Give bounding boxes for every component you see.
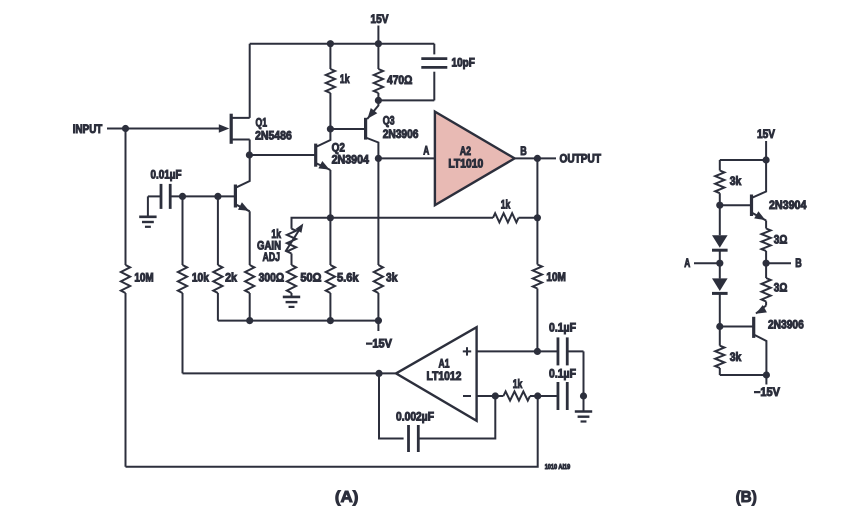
node A junction (B) <box>716 260 723 267</box>
svg-text:50Ω: 50Ω <box>300 271 321 284</box>
wire A2 output <box>515 157 556 159</box>
svg-text:B: B <box>795 257 802 270</box>
transistor 2N3904 (B) emitter <box>752 213 767 221</box>
node A junction <box>375 155 382 162</box>
ground symbol (50ohm) <box>283 296 300 299</box>
wire A1 output row <box>183 372 397 374</box>
power -15V supply stub <box>377 321 379 331</box>
resistor 2k <box>217 196 219 265</box>
label minus input <box>463 395 471 397</box>
resistor 300ohm <box>249 211 251 265</box>
node output / 1k feedback junction <box>534 214 541 221</box>
wire diode column upper (B) <box>719 205 721 235</box>
svg-text:1k: 1k <box>340 73 350 86</box>
node 1k / cap / rail junction <box>534 392 541 399</box>
label plus input <box>463 350 471 352</box>
svg-text:Q3: Q3 <box>383 115 395 128</box>
svg-text:LT1012: LT1012 <box>427 370 462 383</box>
svg-text:10pF: 10pF <box>452 56 475 69</box>
svg-text:3k: 3k <box>730 351 742 364</box>
svg-text:10k: 10k <box>192 271 209 284</box>
potentiometer 1k GAIN ADJ <box>287 229 296 254</box>
transistor Q3 base bar <box>364 118 367 140</box>
node junction top rail / 15V / 470 <box>375 40 382 47</box>
transistor Q2 emitter <box>316 163 331 170</box>
node top rail junction (B) <box>763 156 770 163</box>
svg-text:A1: A1 <box>439 358 450 371</box>
node 300ohm rail junction <box>246 317 253 324</box>
wire top rail (B) <box>720 159 766 161</box>
wire -15V rail <box>218 320 379 322</box>
wire node B lead (B) <box>766 262 791 264</box>
svg-text:−15V: −15V <box>754 386 780 399</box>
svg-text:15V: 15V <box>757 128 775 141</box>
transistor 2N3904 (B) collector <box>752 160 767 198</box>
node bottom rail junction (B) <box>763 371 770 378</box>
transistor 2N3906 (B) collector <box>754 335 767 376</box>
node Q3 emitter junction <box>375 97 382 104</box>
svg-text:LT1010: LT1010 <box>448 158 483 171</box>
svg-text:300Ω: 300Ω <box>259 271 285 284</box>
wire base 2N3906 (B) <box>720 326 753 328</box>
transistor 2N3904 (B) base bar <box>750 195 753 217</box>
svg-text:A: A <box>423 144 429 157</box>
node junction top rail / R 1k <box>327 40 334 47</box>
wire cap to ground <box>147 196 149 216</box>
svg-text:−15V: −15V <box>366 338 392 351</box>
node Q2 collector / Q3 base junction <box>327 125 334 132</box>
wire to right ground <box>583 396 585 412</box>
capacitor 0.1uF (lower) <box>557 382 560 410</box>
node minus input junction <box>492 392 499 399</box>
svg-text:2N3904: 2N3904 <box>332 154 370 167</box>
node Q1 source junction <box>246 151 253 158</box>
wire D1 to node A (B) <box>719 250 721 263</box>
svg-text:Q1: Q1 <box>256 117 268 130</box>
svg-text:3Ω: 3Ω <box>774 282 788 295</box>
resistor 3k (B upper) <box>719 160 721 171</box>
svg-text:2N3906: 2N3906 <box>383 128 419 141</box>
ground symbol (0.01uF) <box>139 216 156 219</box>
wire A1 plus input <box>477 350 557 352</box>
capacitor 10pF <box>433 44 435 55</box>
diode D1 (B) <box>712 235 728 248</box>
wire node A to D2 (B) <box>719 263 721 278</box>
svg-text:0.1µF: 0.1µF <box>549 322 576 335</box>
node 2k top junction <box>214 193 221 200</box>
ground symbol (right) <box>575 410 592 413</box>
resistor 1k feedback <box>493 213 519 222</box>
svg-text:3k: 3k <box>730 175 742 188</box>
transistor 2N3906 (B) base bar <box>752 317 755 338</box>
svg-text:10M: 10M <box>546 271 566 284</box>
svg-text:INPUT: INPUT <box>73 123 103 136</box>
capacitor 0.002uF <box>379 373 404 438</box>
transistor Q3 emitter <box>367 100 378 119</box>
resistor 3k <box>377 158 379 265</box>
wire upper cap to right column <box>567 350 583 352</box>
wire Q1 source to Q2 base <box>249 154 315 156</box>
node B junction (B) <box>763 260 770 267</box>
transistor Q2 base bar <box>314 144 317 167</box>
node right ground junction <box>580 392 587 399</box>
node 10M / plus junction <box>534 348 541 355</box>
svg-text:2N3904: 2N3904 <box>769 199 807 212</box>
svg-text:B: B <box>520 145 527 158</box>
wire base 2N3904 (B) <box>720 204 752 206</box>
power 15V stub (B) <box>765 141 767 160</box>
svg-text:5.6k: 5.6k <box>337 271 359 284</box>
node 3k / base junction (B) <box>716 202 723 209</box>
transistor Q1 gate bar <box>230 114 233 144</box>
resistor 3ohm (B upper) <box>765 221 767 229</box>
resistor 5.6k <box>329 218 331 265</box>
svg-text:A: A <box>684 257 690 270</box>
transistor bias BJT base bar <box>234 185 237 208</box>
node 5.6k rail junction <box>327 317 334 324</box>
wire D2 to lower base (B) <box>719 294 721 327</box>
svg-text:10M: 10M <box>134 271 153 284</box>
resistor 10M (right) <box>536 218 538 265</box>
transistor Q1 source lead <box>231 139 250 141</box>
resistor 3ohm (B lower) <box>765 263 767 278</box>
op-amp A2 LT1010 buffer <box>435 112 515 206</box>
svg-text:ADJ: ADJ <box>263 251 281 264</box>
svg-text:1010 AI19: 1010 AI19 <box>545 464 571 471</box>
node 10k top junction <box>179 193 186 200</box>
svg-text:(A): (A) <box>335 489 359 506</box>
diode D2 (B) <box>712 278 728 291</box>
power 15V supply stub <box>377 26 379 44</box>
svg-text:0.01µF: 0.01µF <box>151 168 182 181</box>
arrow into Q1 gate <box>219 124 230 132</box>
resistor 3k (B lower) <box>719 327 721 346</box>
wire Q2 collector to Q3 base <box>330 128 365 130</box>
svg-text:1k: 1k <box>501 199 511 212</box>
wire input lead <box>107 128 220 130</box>
node feedback / Q2 emitter / 5.6k junction <box>327 214 334 221</box>
svg-text:(B): (B) <box>736 489 757 506</box>
svg-text:3Ω: 3Ω <box>774 234 788 247</box>
wire bottom rail (B) <box>720 374 767 376</box>
svg-text:0.1µF: 0.1µF <box>549 368 576 381</box>
wire A1 minus input <box>477 395 504 397</box>
power -15V stub (B) <box>765 375 767 385</box>
wire Q2 emitter column <box>329 170 331 218</box>
resistor 1k (A1) <box>503 391 530 400</box>
svg-text:1k: 1k <box>513 378 523 391</box>
op-amp A1 LT1012 <box>396 327 477 421</box>
resistor 10M (left) <box>125 129 127 266</box>
wire 15V top rail <box>250 43 435 45</box>
transistor Q2 collector <box>316 129 331 147</box>
wire node A lead (B) <box>694 262 720 264</box>
node output junction <box>534 155 541 162</box>
node A1 output / comp junction <box>375 370 382 377</box>
svg-text:2N5486: 2N5486 <box>255 129 292 142</box>
transistor bias BJT collector <box>235 155 249 188</box>
wire node A to A2 input <box>378 157 435 159</box>
resistor 10k <box>182 196 184 265</box>
wire output column <box>536 158 538 217</box>
wire gain-adj feedback row <box>292 218 494 229</box>
node input junction <box>122 125 129 132</box>
resistor 50ohm <box>287 265 296 293</box>
svg-text:OUTPUT: OUTPUT <box>560 153 602 166</box>
svg-text:2N3906: 2N3906 <box>768 319 804 332</box>
transistor Q1 drain lead <box>231 117 250 119</box>
resistor 470ohm <box>377 44 379 69</box>
node 3k rail junction <box>375 317 382 324</box>
svg-text:15V: 15V <box>371 13 389 26</box>
svg-text:2k: 2k <box>225 271 237 284</box>
svg-text:470Ω: 470Ω <box>387 74 412 87</box>
svg-text:A2: A2 <box>460 145 471 158</box>
svg-text:0.002µF: 0.002µF <box>396 411 434 424</box>
wire bottom feedback rail <box>126 396 538 467</box>
svg-text:3k: 3k <box>386 271 398 284</box>
transistor bias BJT emitter <box>235 204 249 211</box>
resistor 1k (top) <box>329 44 331 69</box>
transistor Q3 collector <box>366 138 379 159</box>
transistor 2N3906 (B) emitter <box>756 306 766 314</box>
node lower base junction (B) <box>716 323 723 330</box>
capacitor 0.01uF <box>160 184 163 209</box>
capacitor 0.1uF (upper) <box>557 337 560 365</box>
wire cap row to bias transistor base <box>170 195 234 197</box>
